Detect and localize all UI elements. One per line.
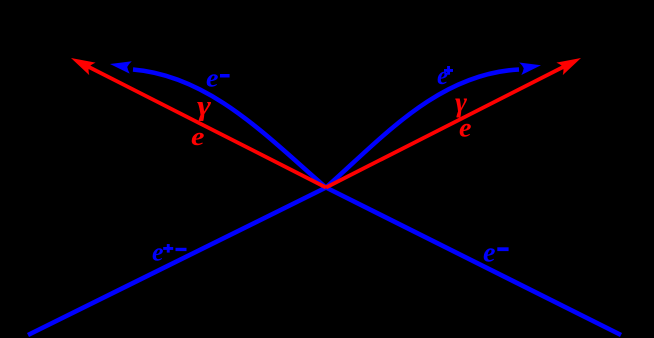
svg-text:e: e: [437, 61, 448, 90]
label: incoming e- (bottom-right, blue): [483, 238, 509, 269]
wire: incoming electron line e- (bottom-right to center): [326, 188, 621, 336]
svg-text:e: e: [191, 122, 205, 151]
svg-text:e: e: [483, 238, 496, 269]
label: outgoing positron e+ (upper-right, blue): [437, 61, 453, 90]
svg-text:e: e: [152, 238, 164, 267]
arrowhead: outgoing electron (upper-left, blue): [109, 58, 132, 74]
wire: outgoing electron curve (center to upper-left): [133, 70, 326, 188]
wire: photon ray right (red, center to upper-right arrow): [326, 62, 574, 188]
svg-text:e: e: [206, 64, 219, 93]
wire: outgoing positron curve (center to upper-right): [326, 70, 519, 188]
wire: incoming positron line e+- (bottom-left to center): [28, 188, 326, 336]
arrowhead: outgoing positron (upper-right, blue): [519, 59, 542, 75]
svg-text:γ: γ: [197, 90, 212, 122]
wire: photon ray left (red, center to upper-left arrow): [78, 62, 326, 188]
arrowhead: photon left (red): [68, 52, 96, 75]
label: outgoing electron e- (upper-left, blue): [206, 64, 230, 93]
label: incoming e+- (bottom-left, blue): [152, 238, 187, 267]
svg-text:e: e: [459, 113, 472, 143]
arrowhead: photon right (red): [556, 52, 584, 75]
